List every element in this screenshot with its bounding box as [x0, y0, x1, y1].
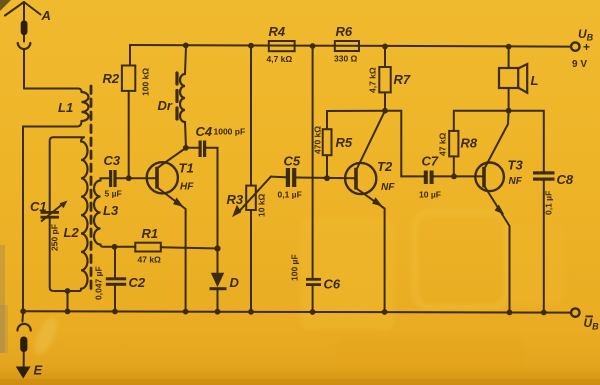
svg-text:T1: T1	[179, 161, 194, 176]
svg-text:R1: R1	[142, 226, 159, 241]
svg-text:+: +	[583, 40, 590, 54]
svg-text:C4: C4	[196, 124, 213, 139]
svg-text:T2: T2	[377, 159, 393, 174]
svg-text:L2: L2	[64, 225, 80, 240]
svg-text:R2: R2	[103, 71, 120, 86]
svg-text:4,7 kΩ: 4,7 kΩ	[368, 67, 378, 93]
svg-text:Dr: Dr	[158, 98, 173, 113]
svg-text:C6: C6	[324, 277, 341, 292]
svg-text:L: L	[531, 73, 539, 88]
svg-text:NF: NF	[381, 182, 395, 193]
svg-text:R6: R6	[336, 24, 353, 39]
svg-text:47 kΩ: 47 kΩ	[438, 132, 448, 156]
svg-text:100 µF: 100 µF	[290, 254, 300, 281]
svg-text:HF: HF	[180, 182, 194, 193]
svg-text:47 kΩ: 47 kΩ	[138, 255, 162, 265]
svg-text:250 pF: 250 pF	[50, 224, 60, 251]
svg-text:C1: C1	[30, 199, 47, 214]
svg-text:L1: L1	[58, 100, 73, 115]
svg-text:C8: C8	[557, 172, 574, 187]
svg-text:R8: R8	[461, 136, 478, 151]
svg-text:C3: C3	[104, 153, 121, 168]
svg-text:R4: R4	[269, 24, 286, 39]
svg-text:T3: T3	[508, 158, 524, 173]
svg-text:R7: R7	[394, 72, 411, 87]
svg-text:L3: L3	[103, 203, 119, 218]
svg-text:470 kΩ: 470 kΩ	[313, 126, 323, 154]
svg-text:D: D	[230, 275, 240, 290]
svg-text:C5: C5	[284, 154, 301, 169]
svg-text:10 µF: 10 µF	[419, 190, 441, 200]
svg-text:0,1 µF: 0,1 µF	[278, 190, 302, 200]
svg-text:0,1 µF: 0,1 µF	[544, 191, 554, 215]
svg-text:9 V: 9 V	[572, 59, 587, 70]
svg-text:R5: R5	[336, 135, 353, 150]
svg-text:A: A	[41, 8, 51, 23]
svg-text:0,047 µF: 0,047 µF	[94, 266, 104, 300]
svg-text:330 Ω: 330 Ω	[334, 54, 358, 64]
svg-text:C2: C2	[129, 275, 146, 290]
svg-text:R3: R3	[227, 192, 244, 207]
svg-text:10 kΩ: 10 kΩ	[257, 193, 267, 217]
svg-text:5 µF: 5 µF	[105, 189, 122, 199]
svg-text:NF: NF	[509, 176, 523, 187]
svg-text:E: E	[34, 363, 43, 378]
svg-text:C7: C7	[422, 154, 439, 169]
svg-text:100 kΩ: 100 kΩ	[141, 68, 151, 96]
svg-text:4,7 kΩ: 4,7 kΩ	[267, 54, 293, 64]
svg-text:1000 pF: 1000 pF	[214, 127, 246, 137]
